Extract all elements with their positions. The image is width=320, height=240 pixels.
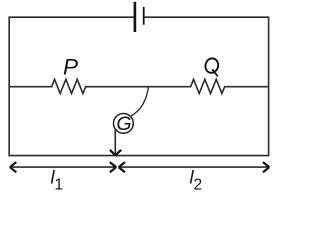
svg-text:l1: l1: [51, 168, 64, 194]
svg-text:P: P: [63, 55, 78, 80]
svg-text:l2: l2: [190, 168, 203, 194]
svg-text:G: G: [116, 113, 131, 135]
